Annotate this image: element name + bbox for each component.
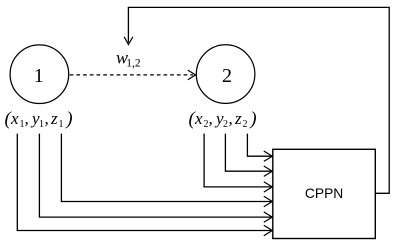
- wire feedback CPPN to w: [128, 7, 389, 193]
- CPPN box: [273, 149, 376, 238]
- node circle 2: [196, 45, 255, 104]
- wire y1 to CPPN: [39, 134, 272, 218]
- wire y2 to CPPN: [225, 134, 272, 172]
- svg-text:2: 2: [222, 65, 232, 87]
- node circle 1: [10, 45, 69, 104]
- wire z1 to CPPN: [61, 134, 272, 202]
- wire z2 to CPPN: [247, 134, 272, 157]
- arrowhead x2: [264, 182, 273, 192]
- wire x2 to CPPN: [204, 134, 272, 187]
- svg-text:1,2: 1,2: [126, 58, 141, 70]
- wire x1 to CPPN: [17, 134, 272, 231]
- arrowhead feedback down: [124, 37, 133, 45]
- svg-text:1: 1: [34, 65, 44, 87]
- arrowhead y2: [264, 166, 273, 176]
- arrowhead into node 2: [188, 70, 196, 80]
- wire dashed connection 1 to 2: [70, 74, 193, 76]
- arrowhead z1: [264, 196, 273, 206]
- arrowhead y1: [264, 212, 273, 222]
- svg-text:CPPN: CPPN: [305, 186, 343, 201]
- arrowhead z2: [264, 151, 273, 161]
- arrowhead x1: [264, 225, 273, 235]
